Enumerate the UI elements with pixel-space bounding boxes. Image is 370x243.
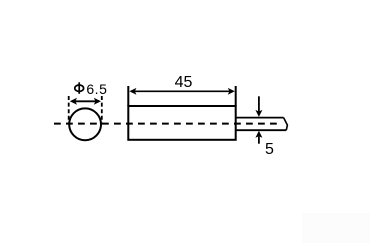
lead wire bottom edge bbox=[237, 129, 287, 131]
svg-text:5: 5 bbox=[265, 141, 274, 158]
svg-text:6.5: 6.5 bbox=[86, 81, 107, 97]
motor end-view circle bbox=[69, 108, 101, 140]
diameter dimension arrow (double-headed) bbox=[70, 98, 101, 105]
length extension line left bbox=[127, 86, 129, 106]
length extension line right bbox=[235, 86, 237, 106]
wire thickness arrow bottom (pointing up) bbox=[255, 131, 262, 144]
centerline (dashed axis) bbox=[54, 123, 282, 125]
wire thickness arrow top (pointing down) bbox=[255, 96, 262, 117]
diameter extension line left (dashed) bbox=[68, 96, 70, 125]
lead wire top edge bbox=[237, 117, 284, 119]
label Φ6.5 : phi symbol drawn as ellipse + stem bbox=[75, 81, 108, 97]
svg-text:45: 45 bbox=[175, 74, 193, 91]
watermark block bottom-right bbox=[302, 213, 370, 243]
lead wire broken end bbox=[284, 118, 288, 131]
motor body rectangle (side view) bbox=[128, 106, 235, 140]
length dimension arrow 45 bbox=[129, 88, 234, 95]
diameter extension line right (dashed) bbox=[101, 96, 103, 125]
